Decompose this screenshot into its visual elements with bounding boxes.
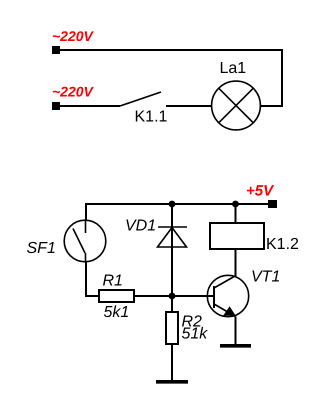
svg-text:SF1: SF1 (27, 240, 56, 257)
wire emitter to ground (235, 317, 237, 345)
svg-text:R1: R1 (103, 272, 123, 289)
wire lamp left (166, 105, 211, 107)
wire +5V rail (86, 203, 268, 205)
svg-text:La1: La1 (220, 60, 247, 77)
svg-text:VT1: VT1 (251, 268, 280, 285)
ground VT1 emitter (220, 344, 251, 348)
svg-text:VD1: VD1 (125, 217, 156, 234)
resistor R2 (166, 312, 178, 344)
svg-text:~220V: ~220V (52, 83, 95, 99)
svg-text:~220V: ~220V (52, 28, 95, 44)
sensor SF1 (64, 220, 106, 263)
lamp La1 (212, 81, 261, 130)
svg-text:+5V: +5V (246, 183, 275, 200)
wire VD1 branch vertical (171, 204, 173, 296)
wire right vertical (281, 49, 283, 106)
wire lamp right (261, 105, 283, 107)
diode VD1 (158, 227, 188, 247)
switch K1.1 blade (120, 92, 161, 106)
wire SF1 to R1 (86, 263, 98, 297)
svg-text:K1.1: K1.1 (135, 108, 168, 125)
svg-text:5k1: 5k1 (104, 304, 130, 321)
wire R2 to ground (171, 345, 173, 380)
relay coil K1.2 (210, 223, 264, 249)
wire line2 horizontal (60, 105, 120, 107)
terminal +5V (268, 200, 277, 208)
junction rail-VD1 (169, 201, 176, 208)
svg-text:K1.2: K1.2 (266, 236, 299, 253)
svg-text:51k: 51k (182, 325, 209, 342)
wire junction to R2 (171, 296, 173, 311)
wire rail to SF1 (85, 203, 87, 220)
junction rail-K1.2 (232, 201, 239, 208)
resistor R1 (99, 290, 134, 302)
wire R1 to base (135, 295, 214, 297)
transistor VT1 (207, 275, 248, 316)
wire relay to collector (235, 250, 237, 276)
terminal X2 (52, 102, 60, 110)
wire rail to relay (235, 204, 237, 222)
junction R1-R2-VD1 (169, 293, 176, 300)
ground R2 (156, 380, 188, 384)
terminal X1 (52, 46, 60, 54)
wire line1 horizontal (60, 49, 282, 51)
